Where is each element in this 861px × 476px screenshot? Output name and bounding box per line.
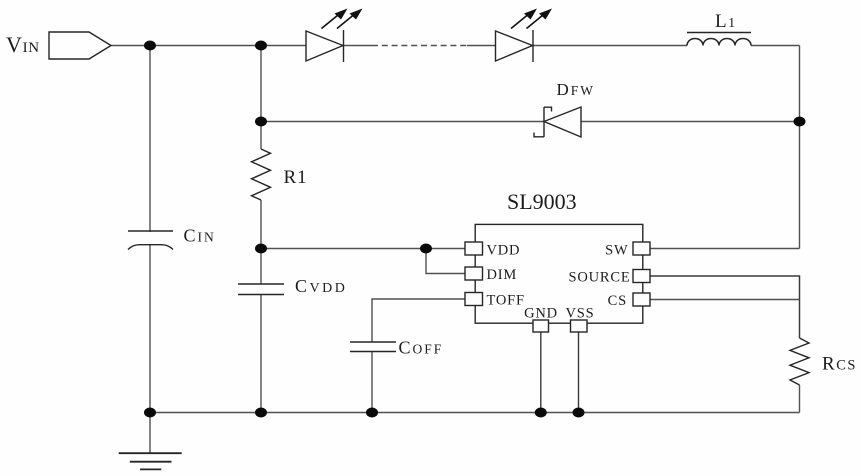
svg-text:VDD: VDD	[487, 242, 521, 258]
svg-text:TOFF: TOFF	[487, 292, 525, 308]
svg-text:CS: CS	[608, 293, 627, 309]
svg-text:RCS: RCS	[822, 354, 857, 375]
svg-text:VSS: VSS	[566, 306, 595, 322]
svg-text:DIM: DIM	[487, 267, 518, 283]
svg-text:SL9003: SL9003	[507, 189, 577, 214]
svg-text:DFW: DFW	[557, 80, 596, 99]
svg-text:SW: SW	[605, 242, 628, 258]
svg-text:R1: R1	[284, 167, 308, 188]
svg-text:SOURCE: SOURCE	[568, 270, 630, 286]
svg-text:GND: GND	[524, 306, 558, 322]
